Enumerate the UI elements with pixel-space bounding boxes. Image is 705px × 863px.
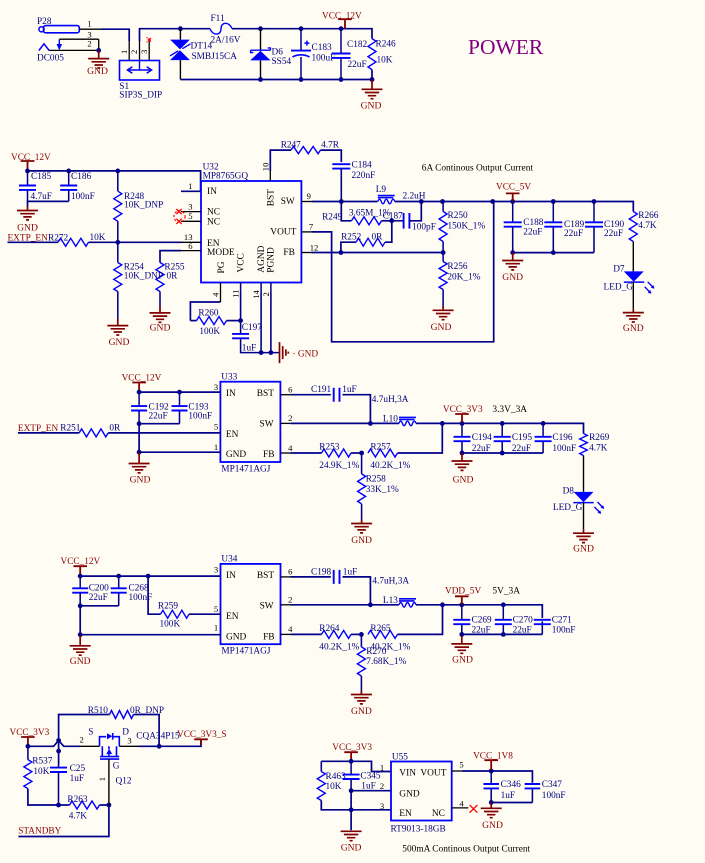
switch S1 body bbox=[120, 61, 160, 81]
resistor R246 bbox=[368, 39, 376, 70]
svg-text:4: 4 bbox=[210, 292, 220, 297]
svg-text:SMBJ15CA: SMBJ15CA bbox=[192, 52, 238, 62]
capacitor C183 pins bbox=[300, 29, 302, 51]
svg-text:R263: R263 bbox=[67, 795, 87, 805]
ground symbol R258 bbox=[351, 520, 372, 533]
resistor R253 bbox=[322, 449, 351, 457]
capacitor C269 pins bbox=[461, 605, 463, 620]
wire R248 bottom to EN rail bbox=[117, 221, 119, 242]
svg-text:GND: GND bbox=[87, 66, 108, 77]
resistor R247 bbox=[291, 147, 320, 154]
U32 pin 7 VOUT line bbox=[301, 231, 311, 233]
inductor L10 bbox=[399, 417, 416, 419]
power symbol VCC_1V8 bbox=[484, 760, 498, 770]
svg-text:22uF: 22uF bbox=[523, 227, 542, 237]
svg-text:500mA Continous Output Current: 500mA Continous Output Current bbox=[402, 844, 530, 854]
svg-text:10K_DNP: 10K_DNP bbox=[124, 272, 163, 282]
svg-text:C269: C269 bbox=[472, 615, 492, 625]
svg-text:100K: 100K bbox=[199, 327, 220, 337]
svg-text:BST: BST bbox=[257, 389, 274, 399]
wire C25 top connection bbox=[58, 741, 60, 766]
capacitor C184 bbox=[332, 164, 350, 168]
wire VCC_12V rail U32 bbox=[28, 171, 201, 191]
inductor L9 bbox=[378, 196, 395, 198]
capacitor C195 pins bbox=[501, 423, 503, 436]
capacitor C190 pins bbox=[593, 202, 595, 223]
svg-text:D6: D6 bbox=[272, 48, 284, 58]
svg-text:0R: 0R bbox=[109, 423, 121, 433]
wire VCC_3V3 to source with jog bbox=[28, 741, 80, 747]
wire SW to L13 bbox=[291, 604, 400, 606]
svg-text:4.7R: 4.7R bbox=[321, 140, 340, 150]
svg-text:PG: PG bbox=[217, 261, 227, 273]
svg-text:C195: C195 bbox=[512, 433, 532, 443]
svg-text:2: 2 bbox=[129, 50, 139, 54]
inductor L13 bbox=[399, 599, 416, 601]
capacitor C268 bbox=[111, 588, 127, 592]
ground symbol U55 left bbox=[341, 831, 362, 840]
U33 pin 2 SW line bbox=[280, 422, 290, 424]
no-connect marker on S1 pin 3 bbox=[147, 37, 152, 42]
svg-text:DC005: DC005 bbox=[37, 54, 64, 64]
U32 pin 12 FB line bbox=[301, 252, 311, 254]
svg-text:7.68K_1%: 7.68K_1% bbox=[366, 657, 406, 667]
capacitor C193 bbox=[172, 406, 188, 410]
svg-text:STANDBY: STANDBY bbox=[18, 827, 61, 837]
C187 left pin bbox=[392, 220, 404, 222]
svg-text:4: 4 bbox=[288, 443, 293, 453]
svg-text:L9: L9 bbox=[376, 185, 387, 195]
wire PG pin4 to R260 bbox=[190, 302, 220, 321]
U32 pin 6 line bbox=[181, 250, 201, 252]
resistor R537 top wire bbox=[27, 746, 29, 759]
wire 5V caps bottom rail bbox=[462, 633, 543, 635]
svg-text:U33: U33 bbox=[221, 373, 237, 383]
capacitor C25 bbox=[50, 768, 67, 772]
svg-text:C183: C183 bbox=[312, 43, 332, 53]
wire C186 bottom to C185 bottom bbox=[28, 201, 69, 206]
svg-text:10K: 10K bbox=[377, 56, 393, 66]
svg-text:2A/16V: 2A/16V bbox=[211, 36, 241, 46]
svg-text:14: 14 bbox=[251, 289, 261, 298]
svg-text:F11: F11 bbox=[211, 14, 225, 24]
svg-text:C25: C25 bbox=[70, 764, 86, 774]
capacitor C271 bbox=[534, 620, 551, 624]
svg-text:NC: NC bbox=[207, 217, 220, 227]
junction R249 C187 R252 bbox=[389, 218, 394, 223]
wire S1 pin2 to fuse F11 bbox=[140, 29, 211, 41]
capacitor C346 pins bbox=[490, 771, 492, 784]
capacitor C268 pins bbox=[118, 576, 120, 588]
svg-text:POWER: POWER bbox=[468, 35, 544, 59]
fuse F11 bbox=[210, 23, 232, 34]
svg-text:DT14: DT14 bbox=[191, 42, 213, 52]
junction U34 VCC rail C200 bbox=[78, 574, 83, 579]
wire R259 corner bbox=[148, 576, 160, 614]
svg-text:1uF: 1uF bbox=[242, 344, 256, 354]
capacitor C194 bbox=[454, 437, 471, 441]
svg-text:C185: C185 bbox=[31, 172, 51, 182]
ground symbol R256 bbox=[433, 306, 454, 319]
junction FB R250 R256 bbox=[441, 250, 446, 255]
junction VCC rail C185 bbox=[25, 169, 30, 174]
svg-text:GND: GND bbox=[17, 223, 38, 234]
svg-text:SW: SW bbox=[260, 602, 274, 612]
svg-text:VCC_3V3_S: VCC_3V3_S bbox=[177, 730, 227, 740]
svg-text:MODE: MODE bbox=[207, 248, 235, 258]
wire GND pin 1 U34 bbox=[80, 634, 220, 636]
svg-text:GND: GND bbox=[351, 535, 372, 546]
junction output L9 node bbox=[440, 199, 445, 204]
P28 switch arrow pin 3 bbox=[58, 39, 60, 44]
resistor R510 bbox=[110, 711, 134, 719]
resistor R265 bbox=[368, 630, 397, 638]
svg-text:C186: C186 bbox=[71, 172, 91, 182]
junction VCC rail C186 bbox=[66, 169, 71, 174]
power symbol VCC_12V section U32 bbox=[21, 161, 35, 171]
svg-text:SS54: SS54 bbox=[272, 57, 292, 67]
svg-text:1: 1 bbox=[119, 50, 129, 54]
svg-text:R269: R269 bbox=[589, 433, 609, 443]
junction L13 node bbox=[440, 602, 445, 607]
svg-text:GND: GND bbox=[130, 475, 151, 486]
svg-text:5: 5 bbox=[214, 604, 218, 614]
junction AGND bottom bbox=[259, 350, 264, 355]
junction C183 top bbox=[299, 26, 304, 31]
wire C345 bottom to GND pin 2 bbox=[351, 790, 391, 792]
svg-text:R256: R256 bbox=[447, 262, 467, 272]
svg-text:LED_G: LED_G bbox=[553, 503, 583, 513]
svg-text:GND: GND bbox=[623, 323, 644, 334]
junction rail C196 bbox=[541, 421, 546, 426]
wire R265 to L13 node bbox=[398, 605, 443, 635]
svg-text:VCC_1V8: VCC_1V8 bbox=[473, 751, 513, 761]
svg-text:FB: FB bbox=[283, 248, 294, 258]
svg-text:CQA34P15: CQA34P15 bbox=[136, 732, 180, 742]
svg-text:C182: C182 bbox=[347, 40, 367, 50]
ground symbol R255 bbox=[150, 306, 171, 323]
capacitor C197 bbox=[232, 334, 249, 338]
svg-text:5: 5 bbox=[214, 422, 218, 432]
svg-text:3: 3 bbox=[127, 736, 131, 746]
resistor R463 top wire bbox=[320, 761, 322, 771]
capacitor C182 pins bbox=[340, 29, 342, 54]
svg-text:GND: GND bbox=[150, 323, 171, 334]
ground symbol 5V caps bbox=[451, 636, 472, 653]
junction output C188 bbox=[510, 199, 515, 204]
resistor R250 bbox=[439, 212, 447, 242]
wire VOUT sense loop bbox=[311, 202, 493, 342]
wire VCC_12V rail U33 bbox=[139, 391, 220, 393]
junction EN rail R248 R254 bbox=[115, 240, 120, 245]
wire R246 bottom bbox=[371, 70, 373, 80]
svg-text:R265: R265 bbox=[370, 624, 390, 634]
junction rail C195 bbox=[500, 421, 505, 426]
junction FB R252 bbox=[339, 250, 344, 255]
wire R463 bottom to EN bbox=[321, 801, 391, 810]
wire R263 to gate bbox=[100, 804, 109, 806]
svg-text:G: G bbox=[113, 761, 120, 771]
svg-text:GND: GND bbox=[502, 272, 523, 283]
capacitor C182 bbox=[332, 54, 351, 58]
junction C200 C268 bottom bbox=[78, 603, 83, 608]
svg-text:C345: C345 bbox=[360, 771, 380, 781]
svg-text:5V_3A: 5V_3A bbox=[492, 587, 520, 597]
junction C182 bottom bbox=[339, 77, 344, 82]
regulator U55 body bbox=[391, 762, 452, 821]
junction rail C269 bbox=[459, 602, 464, 607]
svg-text:GND: GND bbox=[482, 820, 503, 831]
junction C346 bottom bbox=[489, 800, 494, 805]
resistor R510 left wire bbox=[59, 715, 110, 741]
svg-text:1: 1 bbox=[97, 777, 107, 781]
svg-text:1: 1 bbox=[214, 442, 218, 452]
junction U34 VCC rail C268 bbox=[116, 574, 121, 579]
wire R258 bottom bbox=[361, 504, 363, 520]
svg-text:3: 3 bbox=[188, 202, 192, 212]
resistor R537 bbox=[24, 760, 32, 789]
junction C25 bottom bbox=[56, 803, 61, 808]
power symbol VCC_12V U34 bbox=[73, 566, 87, 576]
junction output C189 bbox=[551, 199, 556, 204]
capacitor C192 pins bbox=[138, 392, 140, 406]
switch S1 pin 3 bbox=[148, 41, 150, 61]
junction SW C191 bbox=[368, 421, 373, 426]
svg-text:C198: C198 bbox=[311, 567, 331, 577]
power symbol VCC_12V top bbox=[338, 19, 352, 29]
svg-text:2: 2 bbox=[380, 781, 384, 791]
svg-text:22uF: 22uF bbox=[564, 229, 583, 239]
svg-text:VCC_3V3: VCC_3V3 bbox=[332, 743, 372, 753]
wire SW rail bbox=[311, 201, 377, 203]
P28 sleeve zigzag contact bbox=[39, 44, 49, 51]
svg-text:C194: C194 bbox=[472, 433, 492, 443]
junction EN gnd cross bbox=[349, 807, 354, 812]
svg-text:10K: 10K bbox=[33, 767, 49, 777]
svg-text:3.3V_3A: 3.3V_3A bbox=[492, 405, 527, 415]
ground symbol below P28 bbox=[88, 50, 109, 68]
ground symbol U33 bbox=[129, 453, 150, 473]
wire R270 bottom bbox=[360, 676, 362, 691]
wire R254 bottom bbox=[117, 292, 119, 319]
svg-text:NC: NC bbox=[432, 809, 445, 819]
P28 pin 2 line bbox=[49, 49, 98, 51]
wire fuse to D6 C183 C182 R246 top rail bbox=[232, 29, 372, 39]
wire R256 bottom bbox=[442, 290, 444, 307]
ground symbol 3V3 caps bbox=[452, 453, 473, 470]
wire VOUT to VCC_1V8 and C347 bbox=[462, 771, 533, 783]
P28 pin 1 bbox=[79, 28, 101, 30]
wire L9 to output node bbox=[395, 202, 634, 212]
svg-text:· GND: · GND bbox=[293, 350, 319, 360]
power symbol VDD_5V bbox=[455, 596, 469, 605]
svg-text:R258: R258 bbox=[366, 474, 386, 484]
no-connect markers U32 pins 3 5 bbox=[174, 211, 185, 222]
svg-text:Q12: Q12 bbox=[116, 777, 132, 787]
wire P28 pin1 to switch S1 pin1 bbox=[101, 29, 129, 41]
svg-text:U55: U55 bbox=[392, 752, 408, 762]
svg-text:GND: GND bbox=[341, 842, 362, 853]
junction C269 bottom bbox=[459, 632, 464, 637]
wire C193 bottom to C192 bbox=[139, 423, 179, 425]
junction C188 bottom bbox=[510, 250, 515, 255]
svg-text:R264: R264 bbox=[319, 624, 339, 634]
svg-text:GND: GND bbox=[431, 322, 452, 333]
junction C345 bottom GND pin bbox=[349, 788, 354, 793]
svg-text:MP1471AGJ: MP1471AGJ bbox=[221, 647, 270, 657]
svg-text:VCC_12V: VCC_12V bbox=[322, 11, 362, 21]
junction C192 C193 bottom bbox=[137, 421, 142, 426]
svg-text:10K_DNP: 10K_DNP bbox=[124, 201, 163, 211]
ground symbol R254 bbox=[107, 319, 128, 336]
junction gate R263 bbox=[107, 803, 112, 808]
svg-text:GND: GND bbox=[573, 544, 594, 555]
svg-text:GND: GND bbox=[351, 706, 372, 717]
U32 pin 5 line bbox=[181, 220, 201, 222]
wire VCC node to R463 and pin1 bbox=[321, 761, 391, 771]
wire C191 to SW node bbox=[343, 395, 371, 424]
LED D7 bbox=[624, 271, 644, 281]
capacitor C190 bbox=[585, 222, 603, 226]
ground symbol D8 bbox=[573, 529, 594, 542]
wire drain to VCC_3V3_S bbox=[139, 741, 201, 746]
C25 pins bbox=[58, 766, 60, 768]
svg-text:VCC_12V: VCC_12V bbox=[61, 557, 101, 567]
capacitor C188 pins bbox=[512, 202, 514, 223]
svg-text:IN: IN bbox=[226, 571, 236, 581]
svg-text:R257: R257 bbox=[370, 443, 390, 453]
wire R253 to R258 node bbox=[351, 452, 362, 454]
junction D6 top bbox=[258, 26, 263, 31]
LED D8 bbox=[574, 492, 594, 502]
svg-text:4.7K: 4.7K bbox=[589, 444, 608, 454]
capacitor C195 bbox=[494, 437, 511, 441]
resistor R251 bbox=[79, 429, 108, 437]
svg-text:20K_1%: 20K_1% bbox=[447, 272, 480, 282]
svg-text:C197: C197 bbox=[242, 323, 262, 333]
svg-text:5: 5 bbox=[188, 211, 192, 221]
svg-text:R251: R251 bbox=[60, 424, 80, 434]
resistor R248 bbox=[114, 191, 122, 221]
capacitor C200 bbox=[72, 588, 88, 592]
wire MODE pin6 to R255 bbox=[160, 251, 181, 263]
svg-text:0R: 0R bbox=[372, 233, 384, 243]
junction C183 bottom bbox=[299, 77, 304, 82]
svg-text:11: 11 bbox=[231, 290, 241, 298]
svg-text:EN: EN bbox=[399, 809, 412, 819]
U55 pin 5 line bbox=[452, 770, 462, 772]
wire 3V3 caps bottom rail bbox=[462, 452, 543, 454]
U32 pin 10 BST line bbox=[269, 171, 271, 181]
svg-text:C191: C191 bbox=[311, 385, 331, 395]
svg-text:VCC_12V: VCC_12V bbox=[11, 153, 51, 163]
capacitor C197 pins bbox=[240, 321, 242, 334]
svg-text:1uF: 1uF bbox=[501, 791, 515, 801]
schottky diode D6 bbox=[260, 29, 262, 80]
ground symbol output caps bbox=[502, 253, 523, 270]
Q12 gate wire bbox=[108, 759, 110, 805]
resistor R270 top wire bbox=[360, 634, 362, 647]
capacitor C346 bbox=[483, 784, 499, 788]
svg-text:3: 3 bbox=[214, 382, 218, 392]
svg-text:GND: GND bbox=[452, 654, 473, 665]
svg-text:9: 9 bbox=[307, 191, 311, 201]
wire C25 bottom to R263 bbox=[59, 804, 70, 806]
svg-text:6A Continous Output Current: 6A Continous Output Current bbox=[422, 163, 534, 173]
svg-text:VDD_5V: VDD_5V bbox=[445, 587, 481, 597]
capacitor C193 pins bbox=[179, 392, 181, 406]
capacitor C270 pins bbox=[502, 605, 504, 620]
switch S1 arrow bbox=[127, 69, 151, 71]
svg-text:R247: R247 bbox=[281, 140, 301, 150]
ground symbol U34 bbox=[70, 635, 91, 655]
svg-text:GND: GND bbox=[399, 789, 420, 799]
junction L10 node bbox=[440, 421, 445, 426]
junction VCC_1V8 C346 bbox=[489, 769, 494, 774]
wire R510 right to drain bbox=[134, 715, 160, 747]
svg-text:R463: R463 bbox=[326, 772, 346, 782]
svg-text:GND: GND bbox=[361, 101, 382, 112]
svg-text:2: 2 bbox=[87, 39, 91, 49]
svg-text:R260: R260 bbox=[198, 308, 218, 318]
wire R247 to C184 bbox=[321, 150, 342, 162]
svg-text:VCC_3V3: VCC_3V3 bbox=[443, 405, 483, 415]
svg-text:22uF: 22uF bbox=[604, 229, 623, 239]
capacitor C196 pins bbox=[542, 423, 544, 436]
capacitor C188 bbox=[504, 222, 522, 226]
svg-text:4.7K: 4.7K bbox=[638, 221, 657, 231]
svg-text:22uF: 22uF bbox=[89, 593, 108, 603]
U32 pin 14 AGND line bbox=[260, 283, 262, 293]
wire EXTP_EN stub U33 bbox=[18, 432, 79, 434]
svg-text:2: 2 bbox=[288, 595, 292, 605]
wire FB to R253 bbox=[290, 452, 321, 454]
Q12 drain junction bbox=[157, 744, 162, 749]
capacitor C185 pins bbox=[27, 171, 29, 186]
svg-text:GND: GND bbox=[453, 475, 474, 486]
junction C270 bottom bbox=[501, 632, 506, 637]
svg-text:220nF: 220nF bbox=[352, 171, 376, 181]
connector P28 DC005 barrel jack body bbox=[39, 27, 44, 32]
capacitor C191 bbox=[334, 388, 340, 402]
junction U33 VCC rail C192 bbox=[137, 390, 142, 395]
svg-text:4.7uH,3A: 4.7uH,3A bbox=[372, 395, 409, 405]
resistor R252 bbox=[356, 238, 385, 246]
svg-text:100nF: 100nF bbox=[552, 626, 576, 636]
svg-text:C346: C346 bbox=[501, 780, 521, 790]
resistor R272 bbox=[58, 238, 89, 246]
wire C200 bottom down to GND rail bbox=[79, 606, 81, 635]
ground symbol R270 bbox=[351, 691, 372, 704]
capacitor C269 bbox=[453, 620, 470, 624]
svg-text:150K_1%: 150K_1% bbox=[448, 221, 486, 231]
capacitor C347 pins bbox=[531, 783, 533, 785]
svg-text:SW: SW bbox=[260, 419, 274, 429]
svg-text:EN: EN bbox=[226, 612, 239, 622]
resistor R254 bbox=[114, 263, 122, 292]
svg-text:R249: R249 bbox=[322, 212, 342, 222]
svg-text:6: 6 bbox=[288, 385, 293, 395]
regulator U34 body bbox=[221, 564, 281, 644]
svg-text:4: 4 bbox=[459, 798, 464, 808]
svg-text:7: 7 bbox=[309, 222, 314, 232]
svg-text:6: 6 bbox=[288, 567, 293, 577]
svg-text:3: 3 bbox=[380, 801, 384, 811]
no-connect marker U55 pin 4 bbox=[470, 805, 478, 813]
wire L13 to VDD_5V rail bbox=[416, 605, 542, 618]
capacitor C345 bbox=[343, 775, 360, 779]
svg-text:C271: C271 bbox=[552, 615, 572, 625]
